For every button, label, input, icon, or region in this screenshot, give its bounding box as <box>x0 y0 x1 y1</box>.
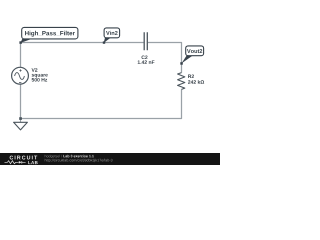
footer logo diode <box>19 161 22 164</box>
flag Vin2 text <box>106 31 118 35</box>
flag High_Pass_Filter box <box>22 27 78 39</box>
wire ground lead <box>20 119 22 123</box>
flag High_Pass_Filter pointer <box>20 39 31 43</box>
footer logo zigzag wire <box>5 161 19 164</box>
label R2 <box>188 75 194 78</box>
footer logo CIRCUIT <box>10 156 38 160</box>
flag Vin2 pointer <box>104 38 111 43</box>
wire top-right: capacitor to resistor R2 <box>148 43 182 73</box>
label C2 value 1.42 nF <box>138 60 155 63</box>
V2 sine wave <box>15 73 25 80</box>
flag Vin2 box <box>104 28 120 38</box>
flag Vout2 box <box>186 46 204 56</box>
node dot Vin2 <box>103 41 105 43</box>
ground symbol <box>14 122 28 130</box>
label V2 square <box>32 74 48 78</box>
footer logo LAB <box>28 161 37 164</box>
wire top-left: node A to capacitor <box>21 43 144 68</box>
V2 minus sign <box>19 82 21 84</box>
label V2 <box>32 68 38 71</box>
label V2 500 Hz <box>32 78 48 82</box>
footer credit line 1 <box>45 155 62 158</box>
label C2 <box>142 56 148 60</box>
resistor R2 zigzag <box>178 73 185 90</box>
flag Vout2 text <box>187 49 202 53</box>
capacitor C2 plates <box>144 32 147 50</box>
wire bottom return: R2 to V2 <box>21 84 182 118</box>
flag Vout2 pointer <box>182 55 194 63</box>
flag High_Pass_Filter text <box>25 31 75 37</box>
node dot High_Pass_Filter <box>19 41 22 44</box>
junction node dot at ground <box>19 117 22 120</box>
footer bar <box>0 153 220 165</box>
footer url line 2 <box>45 159 113 162</box>
voltage source V2 circle <box>12 67 29 84</box>
V2 plus sign <box>19 69 21 71</box>
label R2 value 242 kOhm <box>188 80 204 84</box>
node dot Vout2 <box>180 62 183 64</box>
